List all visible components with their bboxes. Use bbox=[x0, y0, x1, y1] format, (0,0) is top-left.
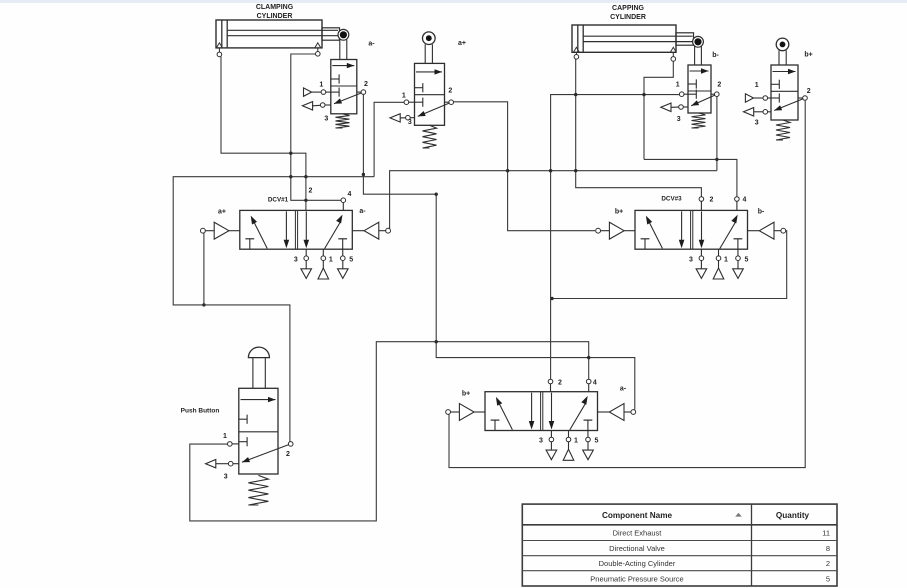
wire: capping cylinder right port branch bbox=[644, 61, 673, 159]
wire junction at (575.7,94.6) bbox=[574, 93, 577, 96]
pneumatic pressure source at valve b+ port 1 bbox=[745, 94, 753, 102]
valve Push Button (3/2) bbox=[181, 388, 293, 505]
svg-text:a-: a- bbox=[620, 386, 627, 393]
exhaust at port 3 of DCV#1 bbox=[304, 256, 309, 261]
svg-text:2: 2 bbox=[558, 379, 562, 386]
exhaust at port 3 of DCV#3 bbox=[699, 256, 704, 261]
DCV#3 port 2 connection bbox=[699, 197, 704, 202]
DCV#2 port 4 connection bbox=[586, 379, 591, 384]
exhaust at port 5 of DCV#3 bbox=[736, 256, 741, 261]
pilot line right of DCV#2 bbox=[609, 404, 624, 421]
wire: valve a+ port 1 to start net bbox=[374, 102, 404, 176]
svg-text:2: 2 bbox=[807, 88, 811, 95]
pressure source at port 1 of DCV#1 bbox=[321, 256, 326, 261]
pressure source at port 1 of DCV#2 bbox=[566, 437, 571, 442]
mounting ticks bbox=[574, 47, 580, 52]
DCV#1 port 4 connection bbox=[341, 198, 346, 203]
wire junction at (644.0,94.6) bbox=[642, 93, 645, 96]
wire junction at (550.6,170.7) bbox=[549, 169, 552, 172]
svg-text:DCV#1: DCV#1 bbox=[268, 197, 289, 204]
svg-text:DCV#3: DCV#3 bbox=[661, 196, 682, 203]
svg-text:5: 5 bbox=[349, 256, 353, 263]
svg-text:a-: a- bbox=[359, 208, 366, 215]
valve a+ bbox=[402, 40, 466, 148]
wire junction at (305.9,176.7) bbox=[304, 175, 307, 178]
svg-text:a-: a- bbox=[368, 41, 375, 48]
svg-text:1: 1 bbox=[319, 82, 323, 89]
wire: clamping cylinder right port to DCV#1 port 4 bbox=[291, 54, 341, 200]
wire junction at (575.7,170.7) bbox=[574, 169, 577, 172]
wire junction at (552.0,298.5) bbox=[550, 297, 553, 300]
svg-text:b+: b+ bbox=[615, 209, 623, 216]
svg-text:a+: a+ bbox=[458, 40, 466, 47]
direct exhaust at valve b- port 3 bbox=[661, 103, 671, 111]
valve b- bbox=[676, 52, 722, 128]
svg-text:3: 3 bbox=[677, 116, 681, 123]
svg-text:4: 4 bbox=[743, 197, 747, 204]
svg-text:Directional Valve: Directional Valve bbox=[609, 544, 665, 553]
svg-text:Component Name: Component Name bbox=[602, 511, 673, 520]
roller actuator of valve b+ bbox=[776, 38, 789, 51]
svg-text:1: 1 bbox=[402, 93, 406, 100]
capping cylinder right port bbox=[672, 53, 674, 57]
wire junction at (363.4,174.5) bbox=[362, 173, 365, 176]
svg-text:2: 2 bbox=[710, 197, 714, 204]
double-acting cylinder: CLAMPING CYLINDER bbox=[216, 4, 340, 48]
svg-text:5: 5 bbox=[744, 256, 748, 263]
svg-text:2: 2 bbox=[826, 559, 830, 568]
DCV#2 port 2 connection bbox=[548, 379, 553, 384]
svg-text:b+: b+ bbox=[804, 52, 812, 59]
wire junction at (290.8,176.7) bbox=[289, 175, 292, 178]
svg-text:4: 4 bbox=[348, 191, 352, 198]
wire junction at (716.9,159.4) bbox=[715, 158, 718, 161]
wire junction at (290.8,153.2) bbox=[289, 152, 292, 155]
svg-text:2: 2 bbox=[286, 451, 290, 458]
pressure source at port 1 of DCV#3 bbox=[716, 256, 721, 261]
svg-text:a+: a+ bbox=[218, 209, 226, 216]
mounting ticks bbox=[217, 43, 223, 48]
directional valve DCV#2 (5/2) bbox=[446, 386, 636, 461]
wire junction at (436.2,341.7) bbox=[435, 340, 438, 343]
svg-text:3: 3 bbox=[755, 120, 759, 127]
svg-text:Direct Exhaust: Direct Exhaust bbox=[613, 529, 663, 538]
svg-text:Quantity: Quantity bbox=[776, 511, 810, 520]
svg-text:Pneumatic Pressure Source: Pneumatic Pressure Source bbox=[590, 574, 683, 583]
exhaust at port 5 of DCV#2 bbox=[586, 437, 591, 442]
wire junction at (436.2,194.2) bbox=[435, 193, 438, 196]
svg-text:CAPPING: CAPPING bbox=[612, 5, 644, 12]
svg-text:Push Button: Push Button bbox=[181, 407, 220, 414]
roller actuator of valve b- bbox=[693, 36, 704, 47]
svg-text:1: 1 bbox=[676, 82, 680, 89]
svg-text:b-: b- bbox=[712, 52, 719, 59]
pilot line left of DCV#1 bbox=[214, 222, 229, 239]
svg-text:CYLINDER: CYLINDER bbox=[257, 13, 293, 20]
wire: DCV#2 port 4 to push button port 1 bbox=[190, 342, 589, 521]
svg-text:3: 3 bbox=[294, 256, 298, 263]
svg-text:11: 11 bbox=[822, 529, 830, 538]
pilot line right of DCV#1 bbox=[364, 222, 379, 239]
wire: valve a+ port 2 to DCV#3 left pilot bbox=[454, 102, 596, 231]
svg-text:1: 1 bbox=[724, 256, 728, 263]
pilot line right of DCV#3 bbox=[759, 222, 774, 239]
roller actuator of valve a- bbox=[338, 29, 349, 40]
wire: DCV#1 left pilot drop bbox=[203, 233, 205, 305]
svg-text:2: 2 bbox=[309, 188, 313, 195]
svg-text:1: 1 bbox=[329, 256, 333, 263]
wire junction at (507.6,170.7) bbox=[506, 169, 509, 172]
svg-text:2: 2 bbox=[448, 88, 452, 95]
directional valve DCV#3 (5/2) bbox=[596, 196, 786, 280]
exhaust at port 3 of DCV#2 bbox=[549, 437, 554, 442]
clamping cylinder left port bbox=[218, 48, 220, 52]
wire junction at (588.7,357.6) bbox=[587, 356, 590, 359]
wire: signal net a+ / start (to DCV#1 left pilot and push button) bbox=[173, 177, 374, 442]
wire: valve b- port 2 / DCV#3 port 4 bbox=[716, 97, 718, 171]
clamping cylinder right port bbox=[317, 48, 319, 52]
svg-text:3: 3 bbox=[689, 256, 693, 263]
svg-text:8: 8 bbox=[826, 544, 830, 553]
wire: valve b+ port 2 to DCV#2 left pilot bbox=[449, 101, 805, 468]
svg-text:1: 1 bbox=[574, 438, 578, 445]
direct exhaust at valve a+ port 3 bbox=[390, 114, 400, 122]
svg-text:3: 3 bbox=[408, 119, 412, 126]
direct exhaust at valve b+ port 3 bbox=[744, 108, 754, 116]
svg-text:2: 2 bbox=[364, 81, 368, 88]
svg-text:1: 1 bbox=[223, 433, 227, 440]
svg-text:3: 3 bbox=[324, 116, 328, 123]
pneumatic pressure source at valve a- port 1 bbox=[304, 88, 312, 96]
wire: capping cylinder left port to DCV#3 port 2 bbox=[576, 59, 702, 197]
DCV#3 port 4 connection bbox=[735, 197, 740, 202]
svg-text:CLAMPING: CLAMPING bbox=[256, 4, 294, 11]
wire junction at (203.9,304.9) bbox=[202, 303, 205, 306]
double-acting cylinder: CAPPING CYLINDER bbox=[572, 5, 694, 52]
svg-text:4: 4 bbox=[593, 379, 597, 386]
direct exhaust at valve a- port 3 bbox=[302, 102, 312, 110]
component table bbox=[522, 504, 837, 586]
svg-text:3: 3 bbox=[224, 474, 228, 481]
wire junction at (305.9,200.3) bbox=[304, 199, 307, 202]
svg-text:1: 1 bbox=[755, 82, 759, 89]
top window strip bbox=[0, 0, 907, 3]
svg-text:2: 2 bbox=[717, 82, 721, 89]
svg-text:b-: b- bbox=[758, 209, 765, 216]
wire: valve a- port 2 down to junction bbox=[363, 94, 634, 409]
wire: branch to DCV#3 right pilot bbox=[552, 231, 787, 299]
valve a- bbox=[319, 41, 375, 129]
capping cylinder left port bbox=[575, 53, 577, 55]
valve b+ bbox=[755, 52, 813, 141]
exhaust at port 5 of DCV#1 bbox=[341, 256, 346, 261]
wire: DCV#2 port 2 to valve b- port 1 bbox=[551, 95, 680, 380]
wire: DCV#1 right pilot to valve b- port 2 net bbox=[388, 171, 717, 229]
pilot line left of DCV#2 bbox=[459, 404, 474, 421]
wire: clamping cylinder left port to DCV#1 port 2 bbox=[221, 57, 306, 211]
svg-text:3: 3 bbox=[539, 438, 543, 445]
svg-text:b+: b+ bbox=[462, 391, 470, 398]
push button actuator (mushroom head) bbox=[248, 347, 269, 358]
svg-text:5: 5 bbox=[594, 438, 598, 445]
direct exhaust at push button port 3 bbox=[206, 460, 216, 468]
svg-text:Double-Acting Cylinder: Double-Acting Cylinder bbox=[599, 559, 676, 568]
pilot line left of DCV#3 bbox=[609, 222, 624, 239]
svg-text:5: 5 bbox=[826, 574, 830, 583]
directional valve DCV#1 (5/2) bbox=[201, 197, 391, 280]
sort arrow bbox=[735, 513, 742, 517]
svg-text:CYLINDER: CYLINDER bbox=[610, 14, 646, 21]
roller actuator of valve a+ bbox=[423, 32, 436, 45]
